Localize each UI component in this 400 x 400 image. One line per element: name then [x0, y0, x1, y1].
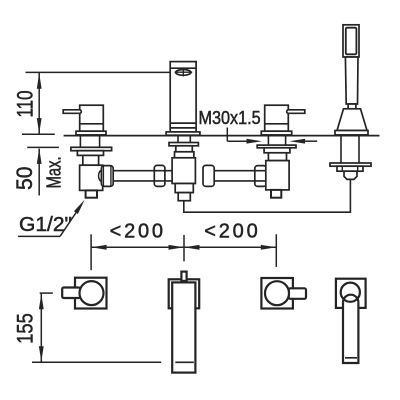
svg-text:G1/2": G1/2" — [19, 213, 72, 236]
svg-text:Max.: Max. — [44, 156, 66, 188]
svg-text:50: 50 — [12, 166, 37, 190]
svg-text:110: 110 — [13, 91, 38, 118]
svg-text:155: 155 — [13, 313, 38, 344]
svg-text:M30x1.5: M30x1.5 — [199, 108, 261, 128]
